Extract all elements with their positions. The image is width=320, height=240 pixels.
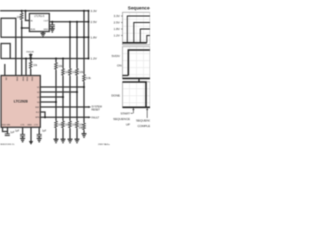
right pin labels: [35, 87, 40, 119]
capacitor C2: [5, 134, 10, 136]
svg-text:2.5V: 2.5V: [91, 20, 98, 24]
divider column A (x=56 from rail4): [55, 59, 57, 63]
diode D1: [29, 53, 32, 58]
node rail4/colB: [62, 57, 64, 59]
node rail3/colC: [69, 36, 71, 38]
resistor R11: [83, 74, 86, 82]
node V3/colB: [62, 96, 64, 98]
resistor R10: [76, 121, 79, 129]
svg-text:GND: GND: [27, 124, 32, 126]
ground under C3: [20, 138, 25, 141]
svg-text:LT1761-5: LT1761-5: [34, 15, 45, 18]
svg-text:6.8k: 6.8k: [86, 77, 91, 80]
node rail4/D1: [30, 57, 32, 59]
wire rail4 to U2 pin1: [4, 64, 6, 76]
wire rail1 3.3V (y=10): [0, 10, 89, 12]
svg-text:2.5V: 2.5V: [114, 21, 120, 25]
ground column E: [82, 134, 87, 137]
arrow FAULT: [88, 116, 91, 118]
node rail1/R1: [21, 10, 23, 12]
resistor R9: [76, 68, 79, 76]
svg-text:RESET: RESET: [92, 109, 101, 112]
svg-text:ON: ON: [5, 77, 7, 81]
wire R1 to SHDN and U2 pin: [22, 20, 30, 75]
ground under C1: [50, 29, 55, 32]
svg-text:FAULT: FAULT: [92, 117, 100, 120]
svg-text:RST: RST: [35, 107, 40, 109]
top pin labels: [5, 77, 33, 82]
trace DONE: [123, 82, 147, 107]
svg-text:1µF: 1µF: [15, 130, 20, 133]
node rail4 end: [87, 57, 89, 59]
svg-text:SPS: SPS: [35, 117, 40, 119]
svg-text:DONE: DONE: [111, 94, 120, 98]
arrow SYSTEM RESET: [88, 106, 91, 108]
panel 2 grid: [123, 47, 151, 79]
svg-text:RUN: RUN: [30, 29, 35, 31]
wire U1 IN feed: [26, 11, 30, 21]
wire right edge vertical: [88, 11, 90, 59]
svg-text:1.2V: 1.2V: [114, 34, 120, 38]
op-amp U1 LDO regulator box: [29, 14, 49, 32]
svg-text:3.3V: 3.3V: [91, 9, 98, 13]
trace ON: [123, 75, 129, 77]
wire rail3 1.8V (y=37) with box1 bottom: [1, 36, 90, 38]
wire pin V2: [40, 91, 77, 93]
resistor R8: [69, 121, 72, 129]
wire rail4 to U2 pin4: [25, 59, 27, 76]
svg-text:UP: UP: [126, 123, 130, 127]
trace DONE jog: [138, 78, 140, 82]
capacitor C3: [22, 127, 24, 134]
wire R2 to U2 pin: [30, 69, 32, 76]
wire pin RST to SYSTEM RESET: [40, 106, 89, 108]
trace supply1: [127, 16, 150, 43]
node V2/colD: [76, 91, 78, 93]
node rail3/colE: [83, 36, 85, 38]
panel 1 box: [123, 12, 151, 45]
node rail2/C1: [51, 21, 53, 23]
svg-text:COMPLETE: COMPLETE: [138, 124, 151, 128]
wire rail4 1.2V (y=58.3) with box2 bottom: [1, 58, 90, 60]
resistor R4: [55, 121, 58, 129]
svg-text:Sequence-Up and: Sequence-Up and: [128, 6, 150, 11]
node pin4: [25, 57, 27, 59]
ground column A: [54, 139, 59, 142]
node rail4/colA: [55, 57, 57, 59]
node rail2/colC: [69, 21, 71, 23]
panel 3 grid: [123, 82, 151, 108]
capacitor C1 on rail2: [51, 22, 53, 25]
trace supply4: [147, 36, 150, 43]
panel 3 box: [123, 82, 151, 108]
panel 2 bottom thick: [123, 77, 151, 79]
module box2 (DC/DC converter): [1, 44, 10, 59]
ground under C4: [37, 138, 42, 141]
panel 2 box: [123, 47, 151, 79]
trace supply2: [134, 23, 150, 43]
panel 3 bottom thick: [123, 106, 151, 108]
node rail2/colD: [76, 21, 78, 23]
node rail3/colD: [76, 36, 78, 38]
svg-text:1N4148: 1N4148: [26, 52, 34, 54]
svg-text:START: START: [120, 111, 130, 115]
svg-text:RESISTORS 1%: RESISTORS 1%: [0, 144, 14, 146]
svg-text:2928 TA01a: 2928 TA01a: [98, 143, 110, 146]
svg-text:SEQUENCE: SEQUENCE: [136, 119, 150, 123]
svg-text:5V/DIV: 5V/DIV: [112, 54, 120, 58]
svg-text:LTC2928: LTC2928: [14, 100, 28, 104]
wire pin SPS to FAULT: [40, 116, 89, 118]
wire pin V1: [40, 86, 84, 88]
svg-text:1.2V: 1.2V: [91, 57, 98, 61]
node V1/colE: [83, 86, 85, 88]
svg-text:ON: ON: [117, 64, 122, 68]
node rail1/colE: [83, 10, 85, 12]
ground column C: [68, 139, 73, 142]
svg-text:OUT: OUT: [44, 21, 49, 23]
node R1/SHDN: [21, 27, 23, 29]
svg-text:3.3V: 3.3V: [114, 14, 120, 18]
resistor R12: [83, 123, 86, 131]
svg-text:1µF: 1µF: [42, 130, 47, 133]
node rail1/U1 IN: [24, 10, 26, 12]
capacitor C4: [38, 127, 40, 134]
trace supply3: [140, 29, 150, 43]
node V4/colA: [55, 101, 57, 103]
trace baseline: [123, 42, 147, 44]
ground column B: [61, 139, 66, 142]
resistor R5: [62, 68, 65, 76]
node FLT/SPS: [44, 116, 46, 118]
arrow ann1: [131, 112, 133, 114]
divider column C (x=70 from rail3): [69, 22, 71, 68]
resistor R2 below D1: [30, 59, 32, 62]
svg-text:1.8V: 1.8V: [91, 36, 98, 40]
resistor R3: [55, 62, 58, 70]
resistor R6: [62, 121, 65, 129]
ticks panel1: [121, 16, 122, 36]
divider column D (x=77 from rail2): [76, 22, 78, 68]
svg-text:GND: GND: [43, 29, 48, 31]
wire VIN pin down: [7, 127, 9, 134]
resistor R7: [69, 68, 72, 76]
wire VDD pin L: [3, 128, 8, 132]
module box1 (DC/DC converter): [1, 18, 16, 75]
node rail1 end: [87, 10, 89, 12]
wire pin V4: [40, 101, 56, 103]
U2 right side pin wires: [40, 87, 89, 117]
svg-text:1.8V: 1.8V: [114, 27, 120, 31]
ground GND pin triangle: [30, 127, 32, 141]
IC U2 LTC2928 body: [1, 76, 40, 128]
wire rail2 2.5V (y=22): [49, 21, 89, 23]
wire pin V3: [40, 96, 63, 98]
junction dots: [21, 10, 90, 119]
pull-up column E (x=84 from rail1): [83, 11, 85, 74]
panel 1 grid: [123, 12, 151, 45]
ground under U1: [42, 32, 44, 34]
svg-text:SEQUENCE: SEQUENCE: [113, 117, 130, 121]
resistor R1 pull-up 10k: [21, 11, 23, 13]
node rail2 end: [87, 21, 89, 23]
svg-text:VIN: VIN: [7, 124, 11, 126]
node rail3 end: [87, 36, 89, 38]
divider column B (x=63 from rail4): [62, 59, 64, 69]
U2 bottom wires: cap C2: [3, 127, 8, 134]
bottom pin labels: [2, 124, 39, 126]
wire pin FLT jog: [40, 112, 45, 117]
arrow ann2: [146, 110, 148, 119]
ground column D: [75, 139, 80, 142]
